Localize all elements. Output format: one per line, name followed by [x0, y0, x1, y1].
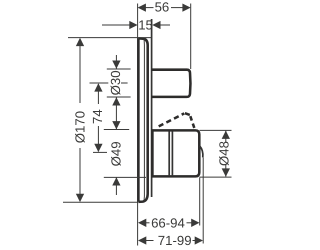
- dimension O170 extension top: [68, 37, 152, 39]
- dimension 15 right shaft: [159, 24, 170, 26]
- lever handle body: [152, 130, 199, 176]
- lever open front bump: [200, 146, 203, 158]
- dimension 71-99 line left: [146, 240, 154, 242]
- lever raised dashed segment left: [159, 113, 185, 126]
- dimension O49 extension top: [104, 129, 129, 131]
- dimension 74 arrow down: [94, 144, 102, 152]
- dimension 71-99 line right: [193, 240, 196, 242]
- svg-text:Ø170: Ø170: [73, 111, 88, 143]
- lever raised dashed segment right: [190, 116, 194, 129]
- dimension O170 extension bottom: [63, 201, 138, 203]
- dimension 56 line: [145, 7, 154, 9]
- dimension 15 arrow pointing right: [129, 21, 137, 29]
- dimension O49 shaft below: [115, 177, 117, 195]
- dimension 66-94 arrow right: [191, 219, 199, 227]
- dimension 66-94 line right: [187, 222, 193, 224]
- dimension O48 extension bottom: [200, 176, 232, 178]
- svg-text:Ø30: Ø30: [108, 70, 123, 95]
- plate front face line: [151, 19, 153, 197]
- dimension 56 arrow right: [182, 3, 190, 11]
- dimension O170 line: [79, 40, 81, 104]
- svg-text:56: 56: [155, 0, 170, 14]
- dimension O170 arrow down: [76, 194, 84, 202]
- dimension O48 extension top: [200, 129, 232, 131]
- dimension O48 arrow down: [225, 165, 227, 177]
- escutcheon plate outer profile: [138, 38, 147, 201]
- svg-text:Ø48: Ø48: [217, 141, 232, 166]
- wall line: [137, 4, 139, 246]
- dimension 15 arrow pointing left: [152, 21, 160, 29]
- dimension 74 line: [97, 84, 99, 104]
- dimension O30 line above: [115, 55, 117, 69]
- dimension O30 arrow top: [112, 61, 120, 69]
- dimension O49 arrow bottom: [112, 177, 120, 185]
- dimension O30 extension top: [107, 68, 131, 70]
- shut-off knob body: [151, 70, 190, 97]
- escutcheon plate inner contour: [143, 39, 145, 201]
- lever sleeve joint double line: [168, 131, 170, 175]
- svg-text:15: 15: [138, 17, 153, 32]
- dimension 71-99 arrow right: [195, 236, 203, 244]
- extension line 66-94: [199, 178, 201, 226]
- dimension 71-99 arrow left: [138, 236, 146, 244]
- dimension O48 arrow up: [225, 131, 227, 142]
- svg-text:Ø49: Ø49: [108, 141, 123, 166]
- extension line 56 front: [190, 4, 192, 70]
- extension line 71-99: [202, 158, 204, 244]
- dimension 15 left shaft: [102, 24, 130, 26]
- svg-text:71-99: 71-99: [158, 233, 192, 248]
- shared shaft O30-O49: [115, 97, 117, 129]
- dimension 66-94 line left: [146, 222, 150, 224]
- dimension O49 arrow top: [112, 121, 120, 129]
- dimension O49 extension bottom: [104, 176, 146, 178]
- escutcheon plate back edge: [137, 38, 140, 202]
- lever centerline: [93, 151, 107, 153]
- svg-text:66-94: 66-94: [151, 215, 185, 230]
- dimension 56 arrow left: [138, 3, 146, 11]
- dimension O30 extension bottom: [107, 96, 131, 98]
- dimension 74 arrow up: [94, 83, 102, 91]
- dimension 66-94 arrow left: [138, 219, 146, 227]
- dimension O30 arrow bottom: [112, 97, 120, 105]
- knob centerline: [90, 82, 128, 84]
- svg-text:74: 74: [90, 109, 105, 124]
- lever raised dashed segment top: [185, 113, 190, 115]
- dimension O170 arrow up: [76, 38, 84, 46]
